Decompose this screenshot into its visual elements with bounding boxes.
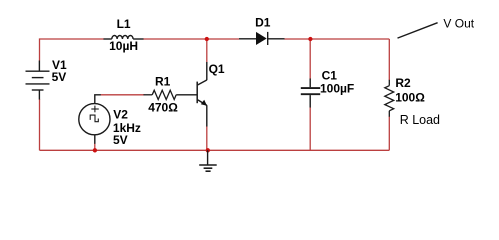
svg-text:R Load: R Load bbox=[400, 113, 440, 127]
svg-text:Q1: Q1 bbox=[209, 62, 225, 76]
svg-text:10µH: 10µH bbox=[109, 39, 138, 53]
svg-text:470Ω: 470Ω bbox=[148, 100, 178, 114]
svg-text:V Out: V Out bbox=[443, 17, 474, 31]
svg-text:100Ω: 100Ω bbox=[395, 91, 425, 105]
svg-text:V2: V2 bbox=[113, 108, 128, 122]
svg-text:L1: L1 bbox=[117, 17, 131, 31]
svg-text:5V: 5V bbox=[113, 133, 128, 147]
svg-text:R2: R2 bbox=[395, 76, 411, 90]
svg-text:D1: D1 bbox=[255, 16, 271, 30]
svg-text:5V: 5V bbox=[52, 70, 67, 84]
svg-text:R1: R1 bbox=[155, 75, 171, 89]
svg-text:100µF: 100µF bbox=[320, 82, 354, 96]
svg-text:C1: C1 bbox=[322, 68, 338, 82]
